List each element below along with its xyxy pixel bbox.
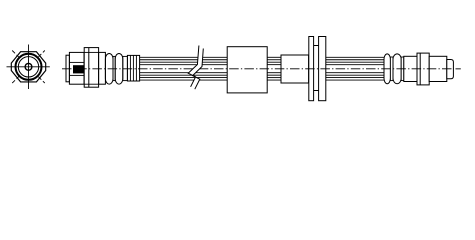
left fitting: crimp band 2	[123, 56, 128, 80]
left fitting: sleeve rib 1	[129, 55, 131, 81]
left fitting: sleeve rib 2	[132, 55, 134, 81]
right fitting: tip	[447, 60, 454, 79]
grommet collar	[281, 55, 309, 83]
left fitting: neck	[99, 52, 106, 84]
left fitting: hex chamfer line upper	[84, 51, 98, 53]
left fitting: bore line lower	[69, 74, 84, 76]
left fitting: hex chamfer line lower	[84, 83, 98, 85]
right fitting: crimp band 2	[401, 57, 404, 81]
clamp block	[227, 47, 267, 93]
left fitting: crimp bulge 2	[115, 54, 123, 85]
right fitting: crimp ring 1	[384, 54, 390, 84]
left fitting: body	[69, 52, 84, 84]
left fitting: dark seal band	[73, 65, 84, 73]
left fitting: hex facet line	[88, 48, 90, 88]
right fitting: hex facet line	[419, 53, 421, 85]
left fitting: ribbed sleeve	[127, 55, 139, 81]
end view: inner circle	[18, 57, 38, 77]
hose segment 1 (left)	[140, 57, 228, 80]
end view: horizontal centerline	[7, 66, 50, 68]
end view: outer circle (across flats, thick)	[16, 54, 42, 80]
left fitting: bore line upper	[69, 61, 84, 63]
end view: octagonal nut outline	[11, 52, 45, 82]
end view: vertical centerline	[28, 45, 30, 90]
centerline stub at right tip	[456, 68, 461, 70]
grommet disc 2	[319, 37, 326, 101]
end view: diagonal phantom line B	[12, 51, 45, 84]
hose segment 2 (between clamp and collar)	[267, 57, 281, 80]
right fitting: crimp ring 2	[393, 54, 401, 84]
hose break symbol: left tear line	[188, 46, 199, 87]
grommet hub	[312, 46, 320, 91]
main centerline	[62, 68, 454, 70]
end view: center bore circle	[25, 63, 32, 70]
hose segment 3 (between discs and right fitting)	[326, 57, 384, 80]
left fitting: end cap	[66, 55, 69, 82]
right fitting: body cylinder 2	[429, 56, 447, 81]
left fitting: crimp bulge 1	[105, 54, 113, 85]
left fitting: sleeve rib 3	[135, 55, 137, 81]
right fitting: crimp band 1	[390, 57, 393, 81]
left fitting: hex nut	[84, 48, 98, 88]
end view: diagonal phantom line A	[12, 51, 45, 84]
left fitting: crimp band 1	[113, 56, 115, 80]
right fitting: hex nut	[417, 53, 429, 85]
grommet disc 1	[309, 37, 314, 101]
hose break symbol: white gap	[188, 46, 203, 90]
hose break symbol: right tear line	[193, 49, 204, 90]
right fitting: body cylinder 1	[404, 56, 417, 81]
